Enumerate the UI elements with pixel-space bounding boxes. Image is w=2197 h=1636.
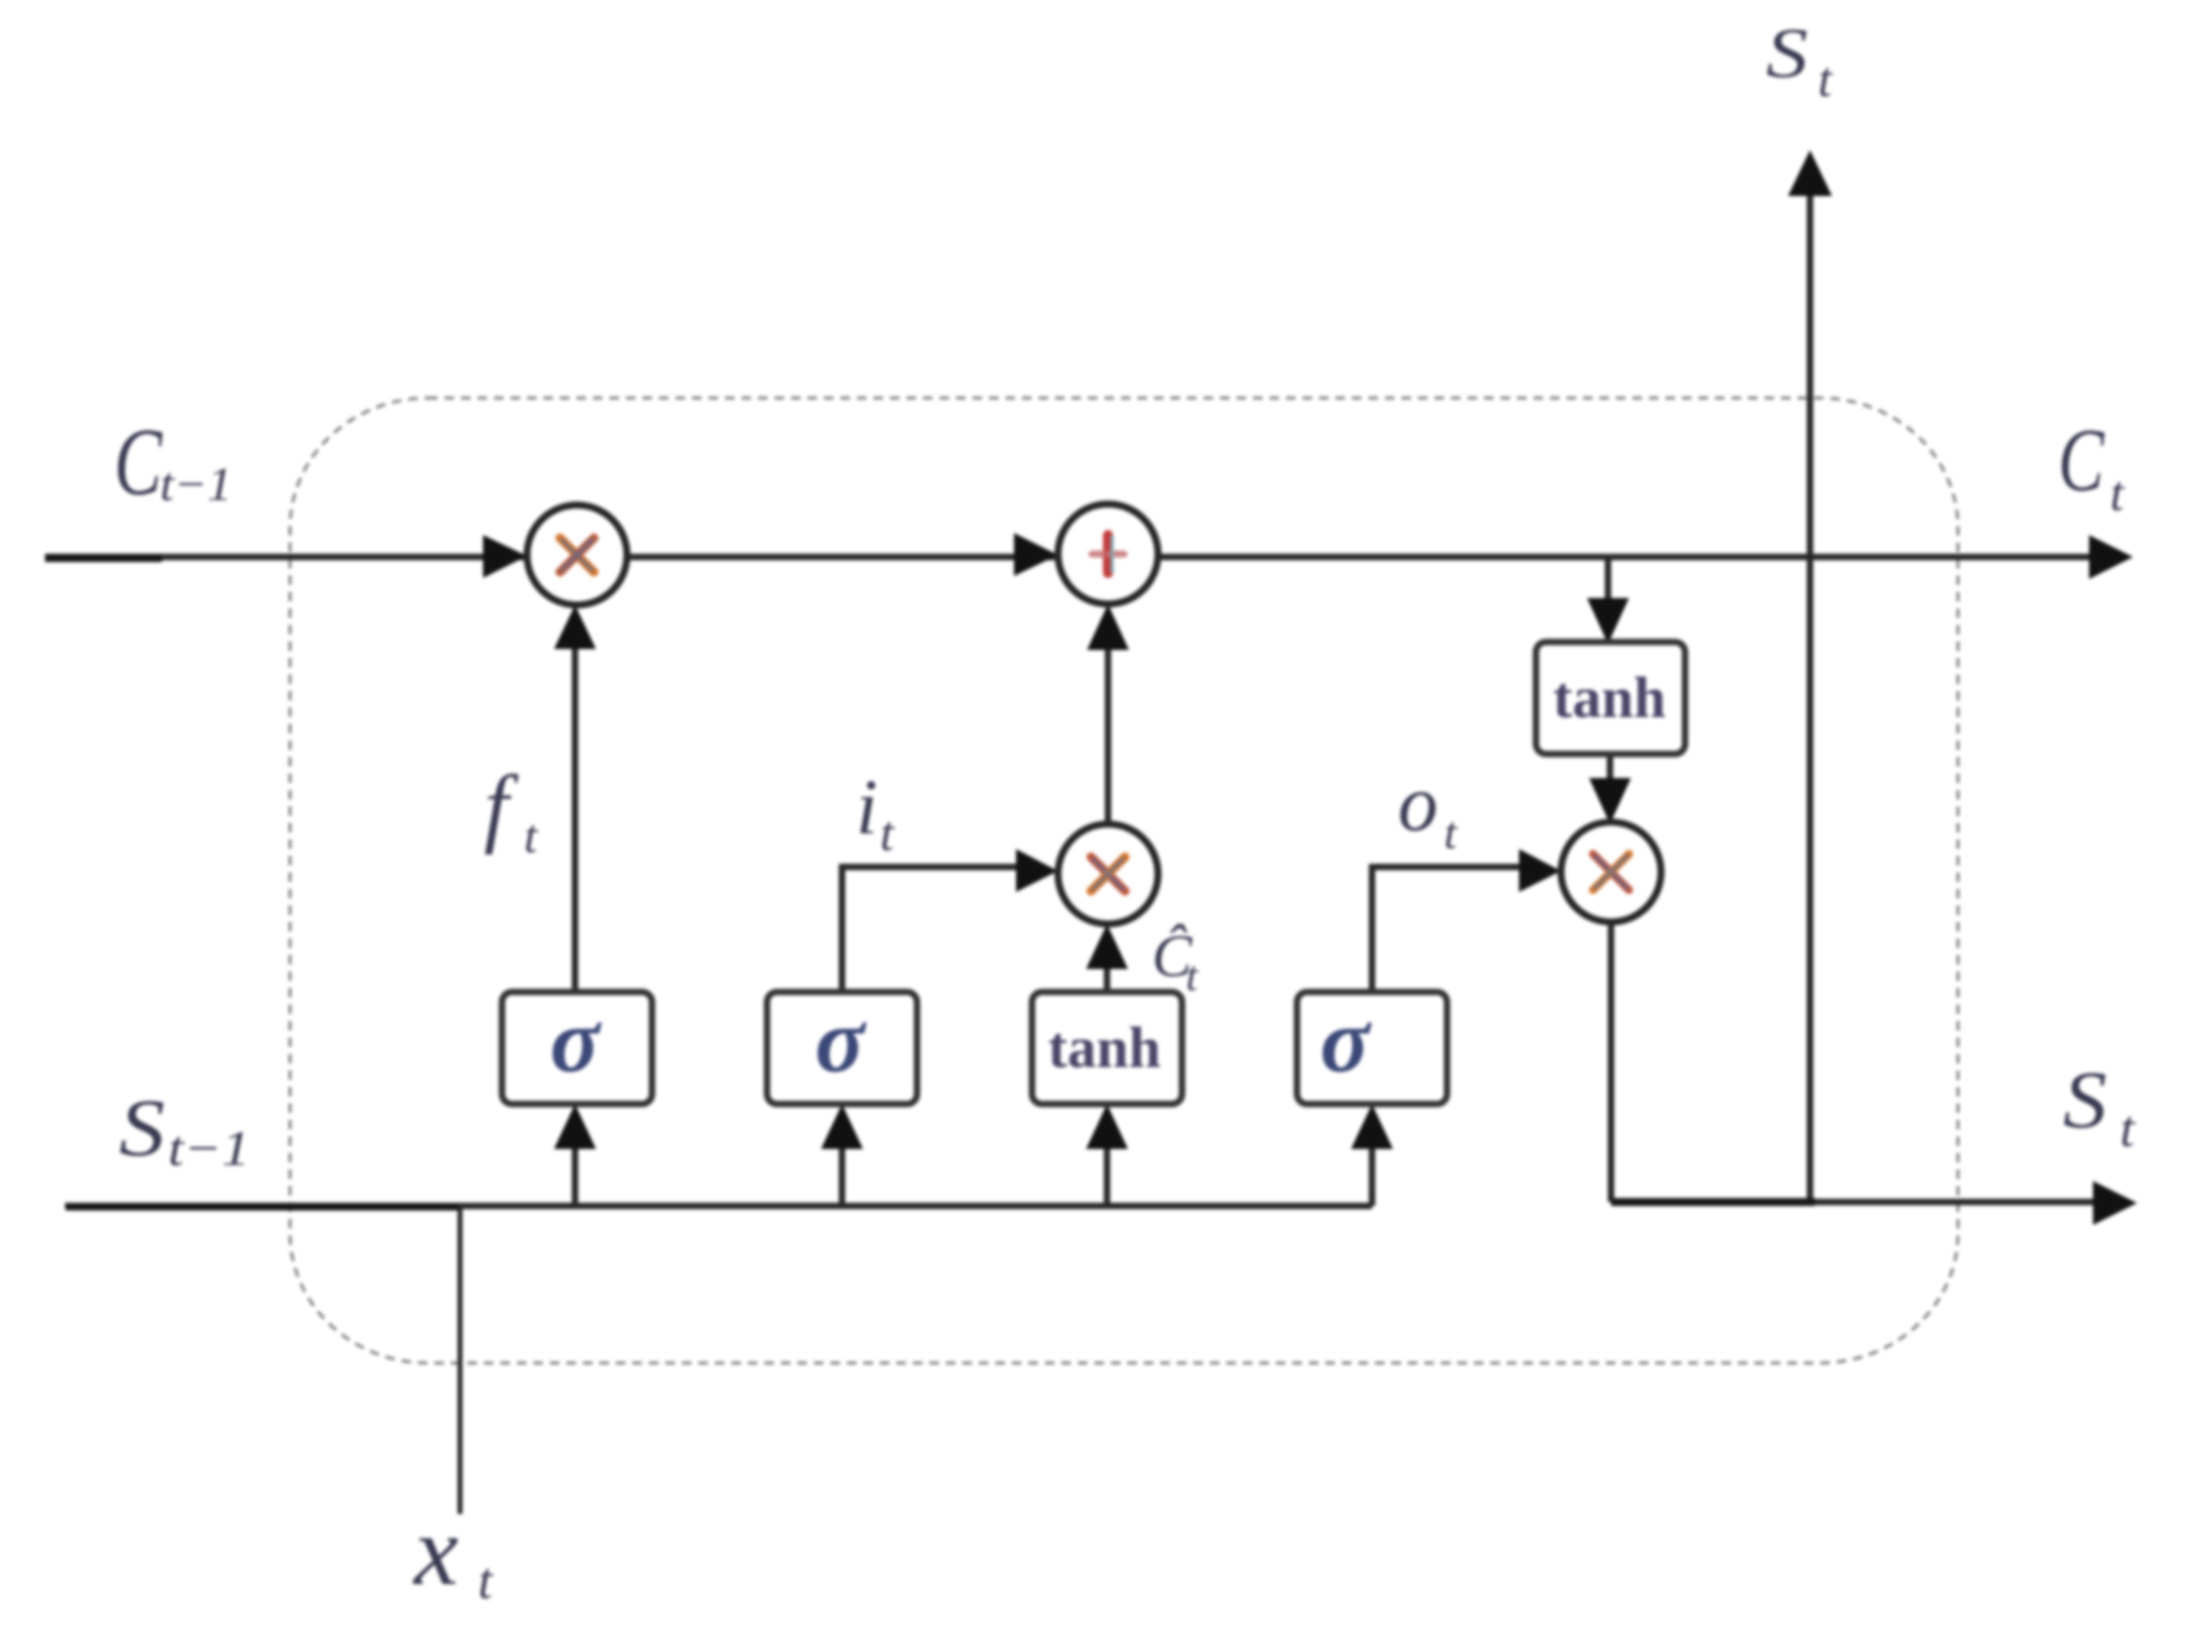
svg-text:t: t (1444, 807, 1458, 858)
svg-text:o: o (1398, 760, 1438, 848)
svg-text:t: t (1186, 954, 1199, 1000)
svg-text:C: C (2058, 411, 2105, 510)
svg-text:t: t (524, 810, 539, 863)
svg-text:σ: σ (550, 989, 602, 1091)
svg-text:σ: σ (815, 989, 867, 1091)
svg-text:S: S (1766, 15, 1808, 93)
svg-text:t: t (1818, 51, 1833, 107)
svg-text:C: C (114, 408, 163, 515)
svg-text:S: S (119, 1082, 165, 1173)
svg-text:tanh: tanh (1553, 665, 1666, 730)
svg-text:t: t (2120, 1101, 2136, 1158)
svg-text:σ: σ (1320, 989, 1372, 1091)
svg-text:i: i (856, 763, 878, 850)
svg-text:S: S (2063, 1054, 2107, 1145)
svg-text:t: t (880, 805, 895, 861)
svg-text:tanh: tanh (1048, 1015, 1161, 1080)
svg-text:x: x (412, 1495, 458, 1606)
svg-text:t: t (478, 1553, 494, 1610)
svg-text:t−1: t−1 (160, 458, 232, 511)
svg-text:t: t (2110, 465, 2125, 521)
svg-text:t−1: t−1 (168, 1120, 250, 1176)
